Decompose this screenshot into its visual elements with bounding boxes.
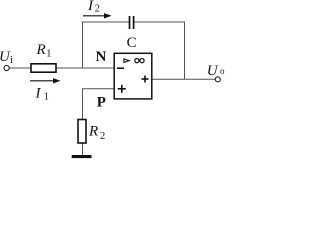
- svg-text:R: R: [88, 124, 98, 140]
- wire capacitor to right corner: [134, 21, 185, 23]
- wire input Ui to N: [9, 67, 114, 69]
- svg-text:U: U: [207, 63, 219, 79]
- svg-text:1: 1: [46, 49, 51, 60]
- wire P down through R2 to ground: [82, 89, 84, 156]
- op-amp gain triangle: [124, 59, 129, 63]
- op-amp inverting input minus sign: [117, 67, 124, 69]
- svg-text:I: I: [87, 0, 94, 14]
- svg-text:2: 2: [100, 131, 105, 142]
- input terminal: [4, 65, 9, 70]
- capacitor C: [130, 16, 134, 29]
- wire output: [152, 78, 215, 80]
- wire P input horizontal: [82, 88, 114, 90]
- output terminal: [215, 77, 220, 82]
- op-amp non-inverting input plus sign: [118, 85, 126, 93]
- op-amp output plus sign: [142, 76, 149, 83]
- arrow I1: [30, 78, 61, 83]
- svg-text:1: 1: [44, 91, 49, 102]
- wire top-left to capacitor: [82, 21, 130, 23]
- svg-text:I: I: [35, 86, 42, 102]
- svg-text:C: C: [127, 35, 137, 51]
- wire feedback tap at node after R1: [82, 22, 84, 68]
- op-amp U1 body: [114, 53, 152, 99]
- op-amp infinity symbol: [135, 59, 144, 63]
- arrow I2: [83, 13, 112, 18]
- svg-text:P: P: [97, 94, 106, 110]
- ground: [72, 155, 92, 158]
- svg-text:o: o: [220, 66, 225, 76]
- wire right vertical of feedback loop: [184, 22, 186, 79]
- svg-text:2: 2: [95, 4, 100, 15]
- resistor R1: [31, 64, 56, 72]
- svg-text:i: i: [10, 55, 13, 66]
- svg-text:R: R: [36, 42, 46, 58]
- resistor R2: [78, 120, 86, 144]
- svg-text:N: N: [96, 49, 107, 65]
